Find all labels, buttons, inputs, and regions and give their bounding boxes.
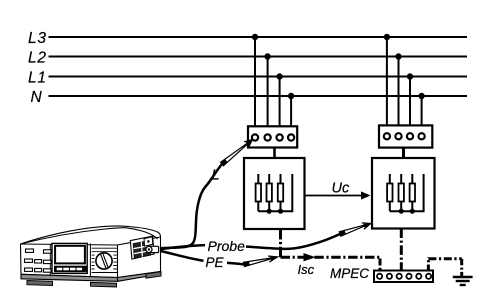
svg-text:L3: L3 [28, 30, 47, 47]
svg-text:Isc: Isc [298, 262, 315, 277]
svg-text:L1: L1 [28, 70, 47, 87]
svg-text:N: N [31, 89, 43, 106]
svg-text:L2: L2 [28, 50, 47, 67]
svg-text:PE: PE [206, 255, 225, 270]
svg-text:MPEC: MPEC [330, 266, 369, 281]
svg-text:Uc: Uc [332, 181, 350, 197]
svg-text:L: L [212, 168, 220, 184]
svg-text:Probe: Probe [208, 238, 246, 254]
